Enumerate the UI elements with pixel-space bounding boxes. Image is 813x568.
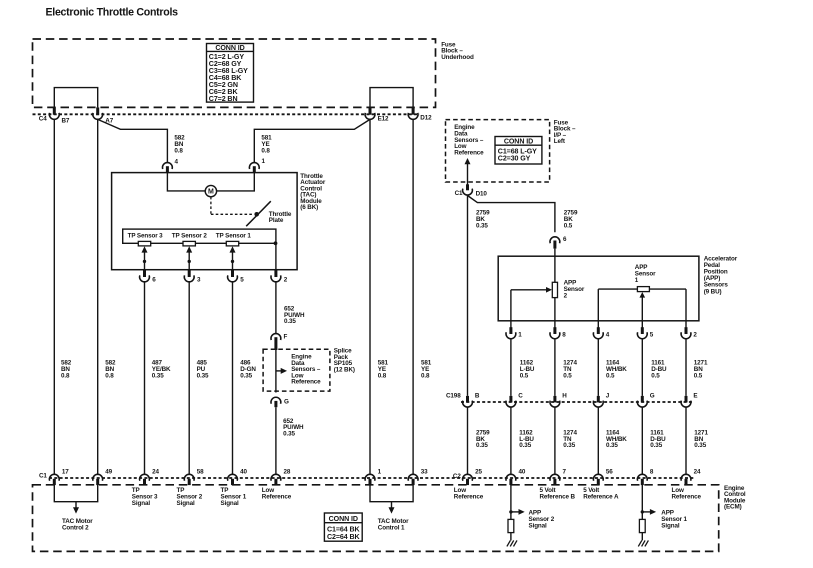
svg-text:0.5: 0.5 [520,372,529,379]
svg-text:M: M [208,189,214,196]
svg-text:Left: Left [554,138,566,145]
svg-text:Reference: Reference [454,493,484,500]
svg-text:0.35: 0.35 [283,430,295,437]
svg-text:TP Sensor 1: TP Sensor 1 [216,233,252,240]
svg-text:(6 BK): (6 BK) [300,204,318,211]
svg-text:Plate: Plate [269,217,284,224]
svg-text:Signal: Signal [221,500,240,507]
svg-text:C1: C1 [455,190,463,197]
svg-text:E12: E12 [378,115,389,122]
svg-text:(ECM): (ECM) [724,504,742,511]
svg-text:0.35: 0.35 [152,372,164,379]
svg-text:(12 BK): (12 BK) [334,366,355,373]
svg-text:Signal: Signal [661,523,680,530]
svg-text:Reference: Reference [291,379,321,386]
svg-text:Signal: Signal [529,523,548,530]
svg-text:49: 49 [105,469,112,476]
svg-text:C2=64 BK: C2=64 BK [327,533,360,541]
svg-text:C7=2 BN: C7=2 BN [209,95,238,103]
svg-text:0.35: 0.35 [476,442,488,449]
svg-text:24: 24 [694,469,701,476]
svg-text:D12: D12 [420,115,432,122]
svg-text:0.8: 0.8 [421,372,430,379]
svg-text:D10: D10 [476,190,488,197]
svg-text:6: 6 [152,277,156,284]
svg-text:C4: C4 [39,115,47,122]
svg-text:8: 8 [562,332,566,339]
svg-text:5: 5 [240,277,244,284]
svg-text:B7: B7 [62,118,70,125]
svg-text:F: F [284,334,288,341]
svg-text:40: 40 [240,469,247,476]
svg-text:0.5: 0.5 [651,372,660,379]
svg-text:0.35: 0.35 [240,372,252,379]
svg-text:0.5: 0.5 [564,222,573,229]
svg-text:0.8: 0.8 [174,148,183,155]
svg-text:CONN ID: CONN ID [504,138,533,146]
svg-text:Reference: Reference [672,493,702,500]
svg-text:0.35: 0.35 [694,442,706,449]
svg-text:Reference A: Reference A [583,493,619,500]
svg-text:Reference B: Reference B [540,493,576,500]
svg-text:C198: C198 [446,393,461,400]
svg-text:G: G [650,393,655,400]
svg-text:Signal: Signal [177,500,196,507]
svg-text:0.5: 0.5 [694,372,703,379]
svg-text:0.8: 0.8 [261,148,270,155]
svg-text:TP Sensor 3: TP Sensor 3 [128,233,164,240]
svg-text:H: H [562,393,567,400]
svg-text:B: B [475,393,480,400]
svg-text:CONN ID: CONN ID [215,44,244,52]
svg-text:0.35: 0.35 [284,318,296,325]
svg-text:CONN ID: CONN ID [329,515,358,523]
svg-text:E: E [693,393,697,400]
svg-text:Control 2: Control 2 [62,524,89,531]
svg-text:1: 1 [518,332,522,339]
svg-text:0.35: 0.35 [519,442,531,449]
svg-text:0.8: 0.8 [378,372,387,379]
svg-text:24: 24 [152,469,159,476]
svg-text:0.35: 0.35 [197,372,209,379]
svg-text:0.35: 0.35 [650,442,662,449]
svg-text:Reference: Reference [262,493,292,500]
svg-text:Electronic Throttle Controls: Electronic Throttle Controls [46,7,179,19]
svg-text:C2=30 GY: C2=30 GY [498,155,531,163]
svg-text:C1: C1 [39,473,47,480]
svg-text:0.5: 0.5 [563,372,572,379]
svg-text:Signal: Signal [132,500,151,507]
svg-text:56: 56 [606,469,613,476]
svg-text:1: 1 [635,277,639,284]
svg-text:17: 17 [62,469,69,476]
svg-text:25: 25 [475,469,482,476]
svg-text:0.5: 0.5 [606,372,615,379]
svg-text:Reference: Reference [454,149,484,156]
svg-text:28: 28 [284,469,291,476]
svg-text:58: 58 [197,469,204,476]
svg-text:TP Sensor 2: TP Sensor 2 [172,233,208,240]
svg-text:G: G [284,399,289,406]
svg-text:C: C [518,393,523,400]
svg-text:0.8: 0.8 [105,372,114,379]
svg-text:0.35: 0.35 [563,442,575,449]
svg-text:33: 33 [421,469,428,476]
svg-text:0.35: 0.35 [476,222,488,229]
svg-text:0.8: 0.8 [61,372,70,379]
svg-text:Underhood: Underhood [441,54,474,61]
svg-text:Control 1: Control 1 [378,524,405,531]
svg-text:(9 BU): (9 BU) [704,288,722,295]
svg-text:0.35: 0.35 [606,442,618,449]
svg-text:C2: C2 [453,473,461,480]
svg-text:40: 40 [519,469,526,476]
